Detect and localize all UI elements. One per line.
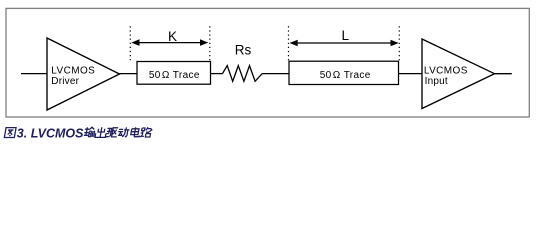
- dashed extension line left of K: [129, 26, 131, 60]
- transmission line box 50ohm Trace (K): [137, 62, 211, 85]
- svg-text:50 Ω Trace: 50 Ω Trace: [320, 70, 371, 81]
- svg-text:K: K: [168, 29, 177, 44]
- svg-text:Driver: Driver: [51, 76, 79, 87]
- dimension arrow L: [290, 40, 399, 47]
- op-amp U1 LVCMOS Driver: [47, 38, 120, 110]
- svg-text:LVCMOS: LVCMOS: [424, 65, 468, 76]
- wire resistor Rs to trace L: [262, 73, 289, 75]
- caption hanzi lu (circuit/road): [140, 127, 153, 137]
- dimension arrow K: [131, 39, 208, 46]
- op-amp U2 LVCMOS Input: [422, 39, 495, 109]
- caption hanzi dian (electric-1): [130, 127, 140, 137]
- svg-text:Rs: Rs: [235, 43, 252, 58]
- caption hanzi qu (drive-1): [106, 128, 119, 137]
- caption hanzi tu (figure): [4, 128, 16, 138]
- svg-text:50 Ω Trace: 50 Ω Trace: [149, 70, 200, 81]
- dashed extension line right of L: [398, 26, 400, 60]
- resistor Rs: [223, 66, 263, 82]
- wire input stub: [21, 73, 47, 75]
- transmission line box 50ohm Trace (L): [289, 61, 399, 84]
- svg-text:L: L: [342, 28, 350, 43]
- svg-text:3. LVCMOS: 3. LVCMOS: [17, 126, 84, 140]
- dashed extension line right of K: [209, 26, 211, 60]
- wire U1 output to trace K: [120, 73, 138, 75]
- caption hanzi shu (output-1): [83, 127, 95, 137]
- caption hanzi chu (output-2): [95, 127, 107, 137]
- svg-text:LVCMOS: LVCMOS: [51, 65, 95, 76]
- svg-text:Input: Input: [425, 76, 448, 87]
- dashed extension line left of L: [288, 26, 290, 60]
- caption hanzi dong (drive-2): [117, 127, 130, 136]
- wire box K to resistor Rs: [211, 73, 223, 75]
- wire trace L to U2: [399, 73, 423, 75]
- caption figure 3: [17, 126, 84, 140]
- wire U2 output stub: [495, 73, 512, 75]
